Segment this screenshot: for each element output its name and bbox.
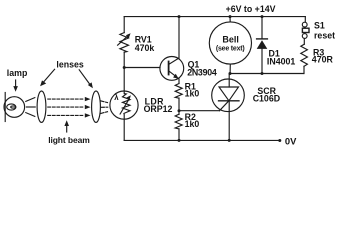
svg-text:λ: λ (114, 93, 119, 102)
wire rail to bell (229, 17, 231, 22)
node R2 bottom junction (178, 139, 181, 142)
wire collector of Q1 to top rail (178, 17, 180, 59)
wire gate of SCR (179, 110, 220, 112)
svg-text:0V: 0V (285, 135, 297, 146)
converging rays into LDR (101, 101, 108, 103)
transistor Q1 (160, 57, 184, 81)
node D1 bottom junction (261, 72, 264, 75)
beam arrowheads (85, 97, 91, 101)
svg-text:Bell: Bell (222, 34, 239, 44)
svg-text:ORP12: ORP12 (144, 104, 173, 114)
terminal 0V (278, 139, 281, 142)
wire R3 to anode node rail (303, 66, 305, 73)
arrow light beam label (66, 125, 68, 132)
svg-text:C106D: C106D (253, 93, 280, 103)
SCR C106D (212, 79, 245, 112)
resistor R2 (175, 114, 182, 129)
lamp (4, 93, 6, 122)
resistor R3 (301, 44, 308, 66)
svg-text:S1: S1 (314, 20, 325, 30)
lamp rays (26, 98, 35, 102)
wire bottom 0V rail (124, 139, 279, 141)
wire top supply rail (124, 16, 305, 18)
wire R2 to 0V rail (178, 129, 180, 141)
node collector junction (178, 15, 181, 18)
wire emitter of Q1 to R1 (178, 79, 180, 84)
wire base of Q1 (124, 67, 160, 69)
svg-text:2N3904: 2N3904 (187, 67, 217, 77)
svg-text:1k0: 1k0 (185, 119, 200, 129)
wire left column top (123, 17, 125, 33)
svg-text:470R: 470R (312, 55, 334, 65)
svg-text:(see text): (see text) (216, 46, 245, 53)
resistor RV1 (120, 33, 129, 53)
wire bell to anode node (229, 64, 231, 73)
arrow to lens 2 (79, 70, 90, 85)
bell (see text) (209, 22, 251, 64)
svg-text:reset: reset (314, 30, 335, 40)
node base junction (123, 66, 126, 69)
arrow to lens 1 (43, 69, 54, 82)
diode D1 (261, 17, 263, 39)
wire LDR to 0V rail (123, 119, 125, 140)
arrow lamp label (15, 80, 17, 88)
svg-text:IN4001: IN4001 (267, 56, 295, 66)
lens 2 (92, 91, 101, 122)
wiper arrow of RV1 (118, 35, 129, 45)
svg-text:lamp: lamp (7, 68, 28, 78)
wire anode node rail (230, 73, 304, 75)
wire R1 to R2 (178, 98, 180, 114)
svg-text:light beam: light beam (48, 135, 90, 145)
resistor R1 (175, 84, 182, 99)
svg-text:1k0: 1k0 (185, 89, 200, 99)
node anode junction (229, 72, 232, 75)
switch S1 reset (304, 17, 306, 22)
svg-text:470k: 470k (135, 43, 155, 53)
node bell top junction (229, 15, 232, 18)
light beam dashed rays (48, 98, 85, 100)
lens 1 (37, 91, 46, 122)
node gate junction (178, 109, 181, 112)
node cathode junction (228, 139, 231, 142)
wire RV1 to LDR (123, 52, 125, 91)
svg-text:lenses: lenses (56, 60, 83, 70)
svg-text:+6V to +14V: +6V to +14V (226, 4, 276, 14)
LDR ORP12 (110, 91, 138, 119)
